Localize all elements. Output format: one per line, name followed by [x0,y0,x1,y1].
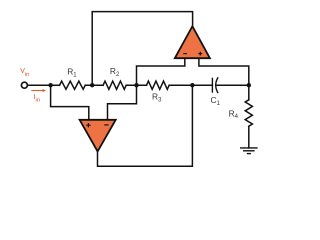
wire op-amp U1 non-inverting input [51,85,89,120]
svg-text:R1: R1 [67,66,77,78]
current arrow Iin [31,89,46,92]
wire R2 to R3 [126,84,146,86]
resistor R1 [60,81,86,89]
wire R4 to ground [248,126,250,148]
svg-text:R3: R3 [152,91,162,103]
capacitor C1 [212,77,218,93]
op-amp U2 [175,26,210,58]
node B (R1-R2 junction) [90,83,94,87]
wire node to R4 [248,85,250,100]
resistor R2 [103,81,126,89]
resistor R3 [147,81,170,89]
wire op-amp U1 output bottom loop [98,85,193,166]
wire R3 to capacitor C1 [169,84,212,86]
wire C1 to node at R4 [217,84,249,86]
node C (R2-R3 junction) [134,83,138,87]
wire op-amp U2 inverting input [137,58,185,85]
wire feedback top loop [92,12,192,86]
svg-text:R4: R4 [229,108,239,120]
wire input terminal to R1 [28,84,59,86]
node A (input junction) [48,83,52,87]
wire R1 to R2 [85,84,103,86]
wire op-amp U2 non-inverting input [199,58,249,85]
ground [240,148,258,154]
op-amp U1 [80,120,116,152]
svg-text:Vin: Vin [20,68,29,78]
svg-text:C1: C1 [211,95,221,107]
resistor R4 [245,100,252,126]
input terminal [21,82,27,88]
node D (R3-C1 junction) [190,83,194,87]
node E (C1-R4 junction) [247,83,251,87]
wire op-amp U1 inverting input [108,85,137,120]
svg-text:Iin: Iin [34,94,40,104]
svg-text:R2: R2 [110,66,120,78]
